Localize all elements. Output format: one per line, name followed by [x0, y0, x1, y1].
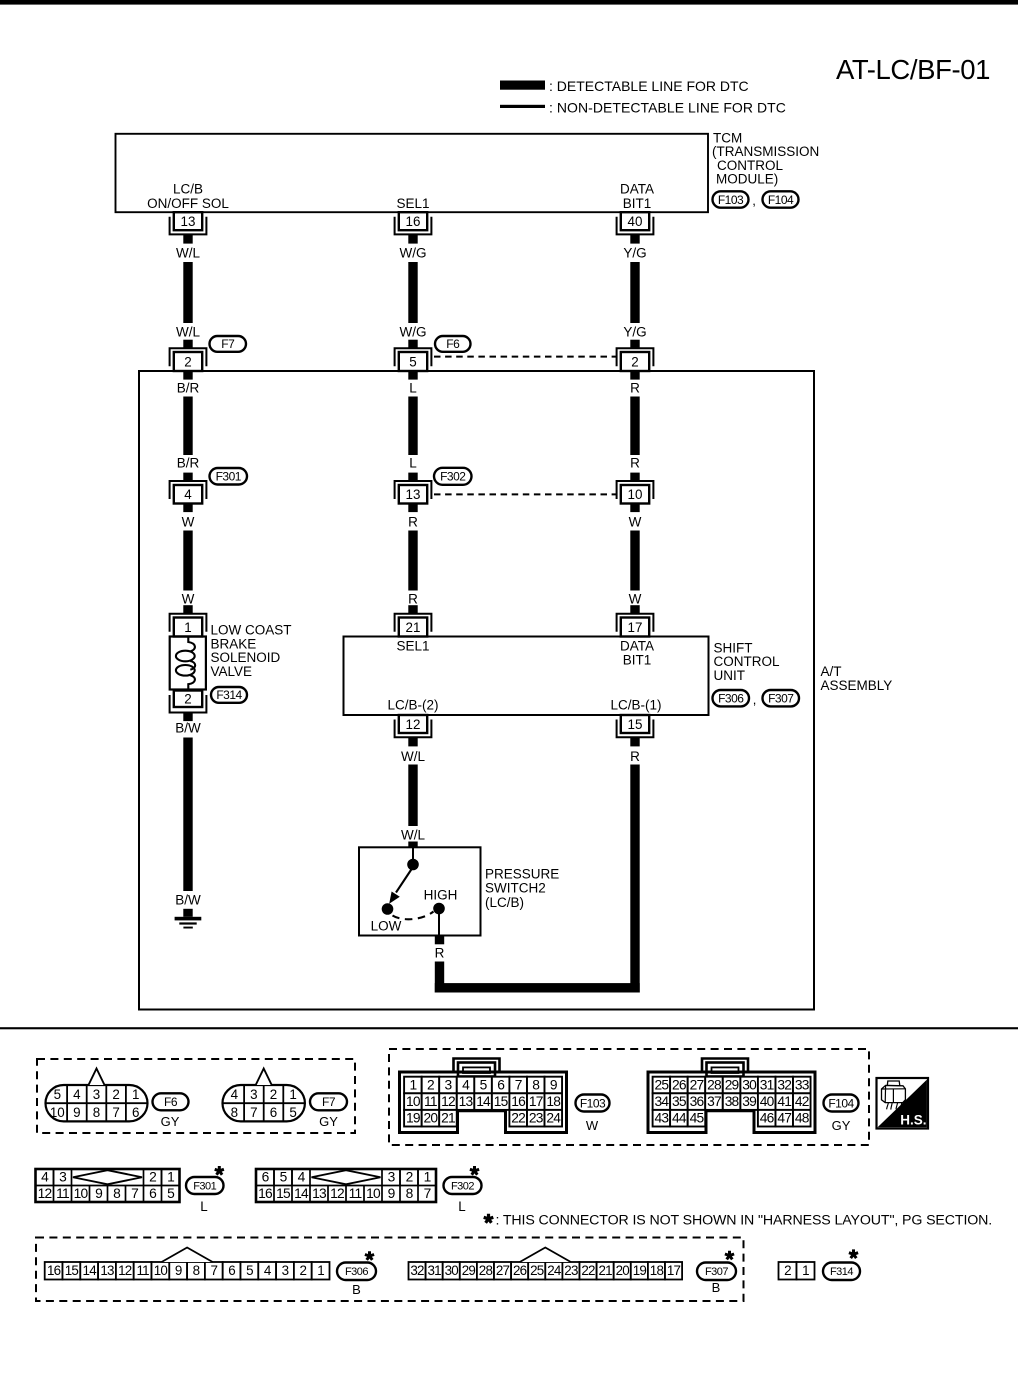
svg-text:2: 2	[270, 1087, 277, 1102]
svg-text:28: 28	[707, 1077, 722, 1092]
svg-text:UNIT: UNIT	[714, 668, 746, 683]
connector F6 face (oval 10-pin)	[46, 1069, 148, 1122]
dashed link F302 row (pin 13 to pin 10)	[434, 493, 616, 495]
shift control unit name	[714, 641, 780, 683]
svg-text:30: 30	[445, 1263, 459, 1278]
svg-text:GY: GY	[832, 1118, 851, 1133]
svg-text:W: W	[182, 515, 195, 530]
TCM name text	[712, 131, 819, 187]
A/T assembly entry pin 2 (right)	[617, 348, 654, 371]
svg-text:9: 9	[388, 1186, 396, 1201]
A/T assembly label	[821, 664, 893, 693]
svg-text:14: 14	[83, 1263, 98, 1278]
svg-text:1: 1	[132, 1087, 139, 1102]
svg-text:29: 29	[462, 1263, 476, 1278]
solenoid pin 2	[170, 691, 207, 722]
svg-text:7: 7	[131, 1186, 138, 1201]
SCU pin 12	[395, 715, 432, 746]
svg-text:3: 3	[388, 1170, 396, 1185]
svg-text:W/L: W/L	[176, 325, 200, 340]
svg-text:LOW: LOW	[371, 919, 402, 934]
svg-text:17: 17	[667, 1263, 681, 1278]
svg-text:10: 10	[366, 1186, 381, 1201]
svg-text:: THIS CONNECTOR IS NOT SHOWN: : THIS CONNECTOR IS NOT SHOWN IN "HARNES…	[496, 1213, 993, 1229]
connector ref F306 oval + star	[337, 1251, 376, 1280]
connector ref F314 (solenoid)	[211, 687, 247, 703]
connector ref F7 oval	[310, 1093, 347, 1110]
svg-text:40: 40	[628, 214, 643, 229]
connector ref F104 (TCM)	[763, 191, 799, 207]
svg-text:HIGH: HIGH	[424, 888, 458, 903]
svg-text:16: 16	[511, 1094, 526, 1109]
svg-text:32: 32	[410, 1263, 424, 1278]
svg-text:ASSEMBLY: ASSEMBLY	[821, 678, 893, 693]
HIGH lead down	[438, 914, 440, 936]
svg-text:7: 7	[515, 1077, 522, 1092]
page top border bar	[0, 0, 1018, 5]
svg-text:F6: F6	[164, 1095, 178, 1109]
svg-text:2: 2	[112, 1087, 119, 1102]
svg-text:F302: F302	[451, 1180, 474, 1192]
shift control unit pin 17	[617, 614, 654, 637]
svg-text:F306: F306	[345, 1266, 368, 1278]
svg-text:R: R	[435, 945, 445, 960]
svg-text:21: 21	[441, 1111, 455, 1126]
svg-text:W/L: W/L	[176, 246, 200, 261]
connector F103 face (24-pin)	[400, 1059, 567, 1133]
svg-text:23: 23	[529, 1111, 544, 1126]
svg-text:9: 9	[95, 1186, 103, 1201]
svg-text:R: R	[630, 749, 640, 764]
svg-text:F302: F302	[440, 470, 466, 484]
svg-text:W: W	[629, 515, 642, 530]
svg-text:23: 23	[564, 1263, 578, 1278]
svg-text:15: 15	[276, 1186, 291, 1201]
svg-text:31: 31	[428, 1263, 442, 1278]
svg-text:28: 28	[479, 1263, 493, 1278]
svg-text:2: 2	[149, 1170, 156, 1185]
TCM pin label DATA BIT1	[620, 182, 654, 212]
svg-text:13: 13	[312, 1186, 327, 1201]
svg-text:SEL1: SEL1	[396, 639, 429, 654]
svg-text:: DETECTABLE LINE FOR DTC: : DETECTABLE LINE FOR DTC	[549, 78, 749, 94]
shift control unit pin 21	[395, 614, 432, 637]
wire R	[630, 397, 639, 456]
svg-text:1: 1	[409, 1077, 416, 1092]
wire R	[408, 531, 417, 591]
dashed group box (F306, F307)	[36, 1238, 744, 1302]
svg-text:20: 20	[616, 1263, 630, 1278]
wire stub above pin	[408, 605, 417, 614]
svg-text:R: R	[630, 456, 640, 471]
svg-text:W/G: W/G	[400, 246, 427, 261]
svg-text:12: 12	[38, 1186, 52, 1201]
svg-text:22: 22	[511, 1111, 525, 1126]
connector ref F307 (SCU)	[763, 690, 800, 706]
svg-text:LC/B: LC/B	[173, 182, 203, 197]
svg-text:10: 10	[154, 1263, 168, 1278]
svg-text:11: 11	[424, 1094, 437, 1109]
svg-text:29: 29	[725, 1077, 740, 1092]
svg-text:DATA: DATA	[620, 182, 654, 197]
svg-text:L: L	[200, 1199, 207, 1214]
svg-text:2: 2	[406, 1170, 413, 1185]
svg-text:7: 7	[250, 1105, 257, 1120]
connector F301 face (12-pin)	[36, 1169, 180, 1202]
svg-text:6: 6	[228, 1263, 235, 1278]
shift control unit box	[344, 637, 709, 716]
connector ref F306 (SCU)	[713, 690, 750, 706]
svg-text:5: 5	[480, 1077, 488, 1092]
svg-text:5: 5	[246, 1263, 253, 1278]
svg-text:31: 31	[760, 1077, 774, 1092]
LOW contact dot	[382, 903, 394, 915]
inline connector pin 4 (F301)	[170, 473, 207, 512]
svg-text:39: 39	[742, 1094, 757, 1109]
svg-text:19: 19	[633, 1263, 647, 1278]
svg-text:41: 41	[777, 1094, 791, 1109]
svg-text:43: 43	[655, 1111, 670, 1126]
wire stub into A/T assembly pin	[630, 340, 639, 349]
SCU pin 15	[617, 715, 654, 746]
svg-text:15: 15	[628, 717, 643, 732]
svg-text:W: W	[586, 1118, 599, 1133]
svg-text:1: 1	[167, 1170, 174, 1185]
svg-text:2: 2	[184, 354, 191, 369]
svg-text:17: 17	[628, 620, 643, 635]
svg-text:25: 25	[655, 1077, 670, 1092]
SCU pin label DATA BIT1	[620, 639, 654, 668]
svg-text:F314: F314	[830, 1266, 853, 1278]
svg-text:22: 22	[581, 1263, 595, 1278]
svg-text:F7: F7	[221, 337, 235, 351]
svg-text:16: 16	[258, 1186, 273, 1201]
connector F104 face (24-pin)	[648, 1059, 815, 1133]
legend non-detectable line sample	[500, 105, 545, 108]
A/T assembly entry pin 2 (left, F7)	[170, 348, 207, 371]
connector ref F301 oval + star	[186, 1166, 224, 1194]
connector F306 face (16-pin strip)	[45, 1248, 330, 1280]
svg-text:18: 18	[546, 1094, 561, 1109]
svg-text:27: 27	[496, 1263, 510, 1278]
svg-text:24: 24	[547, 1263, 562, 1278]
svg-text:10: 10	[406, 1094, 421, 1109]
svg-text:1: 1	[424, 1170, 431, 1185]
connector F307 face (16-pin strip)	[409, 1248, 683, 1280]
svg-text:W: W	[182, 591, 195, 606]
svg-text:13: 13	[100, 1263, 114, 1278]
svg-text:3: 3	[93, 1087, 100, 1102]
svg-text:42: 42	[795, 1094, 809, 1109]
svg-text:1: 1	[184, 620, 191, 635]
svg-text:5: 5	[289, 1105, 296, 1120]
TCM pin 40	[617, 212, 654, 243]
connector ref F301	[210, 468, 248, 485]
wire W/L SCU to pressure switch	[408, 765, 417, 827]
connector ref F314 oval + star	[823, 1249, 860, 1280]
dashed arc between LOW and HIGH	[393, 912, 434, 920]
svg-text:4: 4	[41, 1170, 49, 1185]
svg-text:4: 4	[298, 1170, 306, 1185]
switch arm (arrow to LOW)	[389, 870, 411, 904]
svg-text:5: 5	[280, 1170, 288, 1185]
svg-text:F7: F7	[322, 1095, 336, 1109]
inline connector pin 13 (F302)	[395, 473, 432, 512]
ground symbol	[175, 909, 202, 929]
svg-text:F307: F307	[705, 1266, 728, 1278]
wire B/R	[183, 397, 192, 456]
svg-text:12: 12	[406, 717, 421, 732]
star note	[484, 1213, 992, 1229]
wire stub above pin	[183, 605, 192, 614]
svg-text:,: ,	[753, 692, 757, 707]
svg-text:37: 37	[707, 1094, 721, 1109]
svg-text:2: 2	[427, 1077, 434, 1092]
wire stub into A/T assembly pin	[408, 340, 417, 349]
TCM pin label SEL1	[396, 196, 429, 211]
solenoid pin 1	[170, 614, 207, 637]
connector ref F6 oval	[153, 1093, 189, 1110]
svg-text:19: 19	[406, 1111, 421, 1126]
svg-text:2: 2	[299, 1263, 306, 1278]
svg-text:6: 6	[270, 1105, 277, 1120]
svg-text:15: 15	[65, 1263, 79, 1278]
wire R from SCU pin 15	[630, 765, 639, 993]
svg-text:18: 18	[650, 1263, 664, 1278]
svg-text:38: 38	[725, 1094, 740, 1109]
svg-text:3: 3	[250, 1087, 257, 1102]
wire R elbow from switch to SCU pin 15 column	[435, 962, 640, 993]
svg-text:15: 15	[494, 1094, 509, 1109]
svg-text:Y/G: Y/G	[623, 246, 646, 261]
connector ref F103 (TCM)	[713, 191, 749, 207]
svg-text:9: 9	[73, 1105, 80, 1120]
svg-text:LC/B-(1): LC/B-(1)	[610, 698, 661, 713]
svg-text:F301: F301	[216, 470, 242, 484]
svg-text:B/R: B/R	[177, 456, 200, 471]
svg-text:46: 46	[760, 1111, 775, 1126]
svg-text:25: 25	[530, 1263, 544, 1278]
wire stub below A/T top edge (R)	[630, 371, 639, 380]
svg-text:ON/OFF SOL: ON/OFF SOL	[147, 196, 229, 211]
svg-text:LC/B-(2): LC/B-(2)	[387, 698, 438, 713]
svg-text:34: 34	[655, 1094, 670, 1109]
svg-text:16: 16	[406, 214, 421, 229]
A/T assembly box	[139, 371, 814, 1010]
svg-text:5: 5	[54, 1087, 61, 1102]
svg-text:2: 2	[784, 1263, 791, 1278]
svg-text:13: 13	[181, 214, 196, 229]
svg-text:,: ,	[752, 193, 756, 208]
svg-text:8: 8	[532, 1077, 540, 1092]
svg-text:26: 26	[513, 1263, 527, 1278]
svg-text:10: 10	[50, 1105, 65, 1120]
svg-text:9: 9	[550, 1077, 558, 1092]
svg-text:8: 8	[231, 1105, 238, 1120]
svg-text:11: 11	[349, 1186, 362, 1201]
svg-text:BIT1: BIT1	[623, 652, 652, 667]
wire stub below pressure switch	[435, 936, 444, 945]
svg-text:12: 12	[330, 1186, 344, 1201]
svg-text:3: 3	[59, 1170, 67, 1185]
dashed group box (F6, F7)	[37, 1059, 355, 1133]
svg-text:H.S.: H.S.	[900, 1113, 926, 1128]
svg-text:F103: F103	[580, 1096, 606, 1110]
wire B/W to ground	[183, 738, 192, 892]
svg-text:10: 10	[628, 487, 643, 502]
svg-text:W: W	[629, 591, 642, 606]
svg-text:B: B	[352, 1282, 361, 1297]
switch common contact dot	[407, 859, 419, 871]
svg-text:F104: F104	[768, 193, 794, 207]
svg-text:GY: GY	[161, 1114, 180, 1129]
svg-text:SEL1: SEL1	[396, 196, 429, 211]
svg-text:11: 11	[56, 1186, 69, 1201]
wire W/G TCM to inline connector	[408, 262, 417, 323]
wire stub into pressure switch	[408, 842, 417, 848]
legend detectable line sample	[500, 81, 545, 90]
svg-text:2: 2	[184, 692, 191, 707]
svg-text:36: 36	[690, 1094, 705, 1109]
low coast brake solenoid valve body	[170, 637, 206, 690]
svg-text:35: 35	[672, 1094, 687, 1109]
svg-text:A/T: A/T	[821, 664, 842, 679]
connector ref F103 oval	[576, 1095, 610, 1112]
pressure switch name	[485, 866, 559, 910]
svg-text:GY: GY	[319, 1114, 338, 1129]
TCM pin 13	[170, 212, 207, 243]
connector F314 face (2-pin)	[779, 1262, 815, 1280]
svg-text:4: 4	[73, 1087, 81, 1102]
svg-text:10: 10	[74, 1186, 89, 1201]
connector F302 face (16-pin)	[256, 1169, 436, 1202]
solenoid coil	[176, 637, 195, 690]
svg-text:3: 3	[282, 1263, 289, 1278]
svg-text:R: R	[630, 381, 640, 396]
svg-text:13: 13	[406, 487, 421, 502]
svg-text:24: 24	[546, 1111, 561, 1126]
svg-text:8: 8	[193, 1263, 200, 1278]
wire stub below A/T top edge (L)	[408, 371, 417, 380]
connector ref F307 oval + star	[697, 1251, 736, 1280]
A/T assembly entry pin 5 (middle, F6)	[395, 348, 432, 371]
svg-text:AT-LC/BF-01: AT-LC/BF-01	[836, 54, 990, 85]
svg-text:16: 16	[47, 1263, 61, 1278]
svg-text:R: R	[408, 591, 418, 606]
svg-text:L: L	[409, 381, 417, 396]
connector ref F7	[210, 336, 247, 352]
svg-text:3: 3	[445, 1077, 453, 1092]
wire stub below A/T top edge (B/R)	[183, 371, 192, 380]
wire W/L TCM to inline connector	[183, 262, 192, 323]
TCM (transmission control module) box	[116, 134, 709, 212]
svg-text:F307: F307	[768, 692, 794, 706]
svg-text:6: 6	[132, 1105, 139, 1120]
TCM pin label LC/B ON/OFF SOL	[147, 182, 229, 212]
svg-text:BIT1: BIT1	[623, 196, 652, 211]
svg-text:4: 4	[184, 487, 192, 502]
svg-text:33: 33	[795, 1077, 810, 1092]
svg-text:2: 2	[631, 354, 638, 369]
svg-text:6: 6	[497, 1077, 505, 1092]
switch common lead	[412, 847, 414, 860]
svg-text:17: 17	[529, 1094, 543, 1109]
svg-text:L: L	[409, 456, 417, 471]
svg-text:1: 1	[289, 1087, 296, 1102]
svg-text:7: 7	[112, 1105, 119, 1120]
svg-text:VALVE: VALVE	[211, 664, 253, 679]
svg-text:8: 8	[406, 1186, 414, 1201]
svg-text:12: 12	[118, 1263, 132, 1278]
svg-text:45: 45	[690, 1111, 705, 1126]
svg-text:8: 8	[113, 1186, 121, 1201]
svg-text:11: 11	[136, 1263, 149, 1278]
H.S. harness symbol emblem	[877, 1078, 929, 1129]
connector ref F104 oval	[824, 1095, 859, 1112]
dashed link F6 row (pin 5 to pin 2)	[434, 356, 616, 358]
svg-text:40: 40	[760, 1094, 775, 1109]
svg-text:W/L: W/L	[401, 749, 425, 764]
dashed group box (F103, F104)	[389, 1049, 869, 1145]
svg-text:: NON-DETECTABLE LINE FOR DTC: : NON-DETECTABLE LINE FOR DTC	[549, 100, 786, 116]
svg-text:MODULE): MODULE)	[716, 172, 778, 187]
svg-text:4: 4	[231, 1087, 239, 1102]
svg-text:1: 1	[317, 1263, 324, 1278]
svg-text:B/R: B/R	[177, 381, 200, 396]
svg-text:B: B	[712, 1280, 721, 1295]
wire W	[630, 531, 639, 591]
svg-text:(LC/B): (LC/B)	[485, 895, 524, 910]
connector F7 face (oval 8-pin)	[223, 1069, 305, 1122]
svg-text:12: 12	[441, 1094, 455, 1109]
pressure switch 2 box	[359, 847, 481, 935]
svg-text:21: 21	[599, 1263, 613, 1278]
svg-text:6: 6	[262, 1170, 270, 1185]
svg-text:8: 8	[93, 1105, 100, 1120]
svg-text:48: 48	[795, 1111, 810, 1126]
wire stub into A/T assembly pin	[183, 340, 192, 349]
svg-text:9: 9	[175, 1263, 182, 1278]
svg-text:5: 5	[409, 354, 416, 369]
wire W	[183, 531, 192, 591]
svg-text:SWITCH2: SWITCH2	[485, 881, 546, 896]
svg-text:F6: F6	[446, 337, 460, 351]
svg-text:44: 44	[672, 1111, 687, 1126]
svg-text:20: 20	[424, 1111, 439, 1126]
wire stub above pin	[630, 605, 639, 614]
svg-text:6: 6	[149, 1186, 157, 1201]
svg-text:1: 1	[802, 1263, 809, 1278]
svg-text:26: 26	[672, 1077, 687, 1092]
svg-text:30: 30	[742, 1077, 757, 1092]
svg-text:14: 14	[476, 1094, 491, 1109]
wire L	[408, 397, 417, 456]
svg-text:F314: F314	[216, 688, 242, 702]
svg-text:Y/G: Y/G	[623, 325, 646, 340]
svg-text:7: 7	[424, 1186, 431, 1201]
svg-text:W/L: W/L	[401, 827, 425, 842]
svg-text:W/G: W/G	[400, 325, 427, 340]
svg-text:F103: F103	[718, 193, 744, 207]
svg-text:F301: F301	[193, 1180, 216, 1192]
solenoid valve name	[211, 623, 292, 679]
svg-text:F104: F104	[828, 1096, 854, 1110]
svg-text:13: 13	[459, 1094, 474, 1109]
connector ref F6	[435, 336, 471, 352]
TCM pin 16	[395, 212, 432, 243]
svg-text:32: 32	[777, 1077, 791, 1092]
HIGH contact dot	[433, 903, 445, 915]
